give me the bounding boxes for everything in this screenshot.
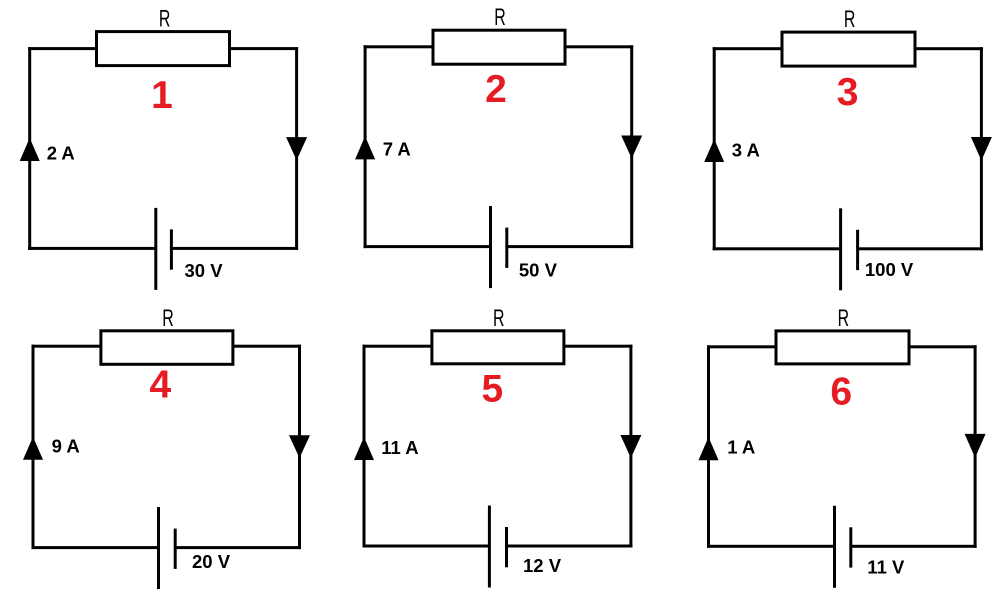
current arrow (up) on left branch (circuit 6) [699, 437, 719, 460]
wire: bottom-left segment (circuit 1) [28, 247, 156, 250]
wire: top-left segment (circuit 5) [363, 345, 432, 348]
svg-text:R: R [494, 4, 506, 31]
wire: top-right segment (circuit 5) [564, 345, 632, 348]
svg-text:2 A: 2 A [47, 143, 75, 164]
svg-text:R: R [159, 6, 171, 33]
wire: bottom-left segment (circuit 4) [32, 546, 159, 549]
wire: bottom-left segment (circuit 2) [364, 245, 491, 248]
wire: bottom-right segment (circuit 4) [175, 546, 301, 549]
battery cell positive plate (long) (circuit 4) [157, 507, 160, 589]
battery cell negative plate (short) (circuit 6) [849, 527, 852, 567]
resistor R (circuit 1) [97, 32, 230, 66]
wire: top-left segment (circuit 6) [707, 345, 776, 348]
battery cell negative plate (short) (circuit 2) [505, 228, 508, 268]
resistor R (circuit 6) [776, 331, 909, 364]
battery cell positive plate (long) (circuit 5) [488, 506, 491, 588]
wire: left vertical branch (circuit 5) [363, 345, 366, 548]
svg-text:R: R [838, 305, 850, 332]
battery cell positive plate (long) (circuit 1) [154, 208, 157, 290]
wire: bottom-left segment (circuit 5) [363, 545, 490, 548]
wire: top-right segment (circuit 3) [916, 47, 983, 50]
svg-text:4: 4 [150, 364, 172, 407]
wire: top-left segment (circuit 1) [28, 47, 96, 50]
svg-text:5: 5 [482, 368, 504, 411]
svg-text:3: 3 [837, 71, 859, 114]
svg-text:R: R [493, 305, 505, 332]
svg-text:9 A: 9 A [52, 436, 80, 457]
svg-text:2: 2 [485, 68, 507, 111]
wire: right vertical branch (circuit 4) [298, 345, 301, 549]
wire: bottom-right segment (circuit 6) [851, 545, 977, 548]
wire: left vertical branch (circuit 3) [713, 47, 716, 250]
svg-text:1 A: 1 A [727, 437, 755, 458]
svg-text:3 A: 3 A [732, 139, 760, 160]
current arrow (up) on left branch (circuit 2) [355, 136, 375, 159]
battery cell positive plate (long) (circuit 6) [833, 506, 836, 588]
battery cell positive plate (long) (circuit 3) [839, 208, 842, 290]
svg-text:7 A: 7 A [383, 139, 411, 160]
wire: bottom-right segment (circuit 5) [507, 545, 633, 548]
resistor R (circuit 2) [433, 30, 565, 64]
wire: right vertical branch (circuit 6) [974, 345, 977, 548]
wire: right vertical branch (circuit 5) [629, 345, 632, 548]
wire: top-left segment (circuit 3) [713, 47, 782, 50]
wire: right vertical branch (circuit 3) [980, 47, 983, 250]
current arrow (down) on right branch (circuit 2) [621, 136, 642, 159]
svg-text:R: R [162, 305, 174, 332]
svg-text:30 V: 30 V [185, 260, 224, 281]
wire: left vertical branch (circuit 6) [707, 345, 710, 548]
svg-text:20 V: 20 V [192, 551, 231, 572]
wire: top-left segment (circuit 2) [364, 45, 433, 48]
current arrow (up) on left branch (circuit 1) [20, 138, 40, 161]
battery cell negative plate (short) (circuit 5) [505, 527, 508, 567]
resistor R (circuit 4) [101, 331, 233, 365]
wire: right vertical branch (circuit 1) [295, 47, 298, 250]
current arrow (down) on right branch (circuit 3) [971, 137, 992, 161]
current arrow (down) on right branch (circuit 4) [289, 435, 310, 458]
wire: bottom-left segment (circuit 3) [713, 247, 841, 250]
wire: bottom-left segment (circuit 6) [707, 545, 835, 548]
svg-text:R: R [844, 6, 856, 33]
wire: bottom-right segment (circuit 1) [171, 247, 298, 250]
wire: bottom-right segment (circuit 2) [507, 245, 633, 248]
current arrow (down) on right branch (circuit 1) [286, 137, 307, 160]
current arrow (down) on right branch (circuit 5) [620, 435, 641, 458]
svg-text:11 A: 11 A [381, 437, 418, 458]
wire: top-left segment (circuit 4) [32, 345, 101, 348]
svg-text:1: 1 [151, 74, 173, 117]
wire: left vertical branch (circuit 2) [364, 45, 367, 248]
battery cell negative plate (short) (circuit 3) [856, 230, 859, 270]
battery cell positive plate (long) (circuit 2) [489, 206, 492, 288]
battery cell negative plate (short) (circuit 1) [170, 229, 173, 269]
current arrow (up) on left branch (circuit 4) [23, 437, 43, 460]
svg-text:12 V: 12 V [523, 555, 562, 576]
battery cell negative plate (short) (circuit 4) [174, 529, 177, 569]
current arrow (down) on right branch (circuit 6) [965, 434, 986, 458]
current arrow (up) on left branch (circuit 5) [354, 437, 374, 460]
wire: left vertical branch (circuit 1) [28, 47, 31, 250]
svg-text:6: 6 [830, 370, 852, 413]
wire: top-right segment (circuit 4) [233, 345, 301, 348]
wire: top-right segment (circuit 6) [910, 345, 977, 348]
current arrow (up) on left branch (circuit 3) [704, 139, 724, 162]
svg-text:50 V: 50 V [519, 260, 558, 281]
wire: right vertical branch (circuit 2) [630, 45, 633, 248]
wire: bottom-right segment (circuit 3) [858, 247, 983, 250]
wire: top-right segment (circuit 2) [566, 45, 634, 48]
resistor R (circuit 3) [782, 32, 915, 66]
wire: left vertical branch (circuit 4) [32, 345, 35, 549]
wire: top-right segment (circuit 1) [230, 47, 298, 50]
svg-text:100 V: 100 V [865, 259, 914, 280]
resistor R (circuit 5) [432, 331, 564, 364]
svg-text:11 V: 11 V [867, 556, 905, 577]
